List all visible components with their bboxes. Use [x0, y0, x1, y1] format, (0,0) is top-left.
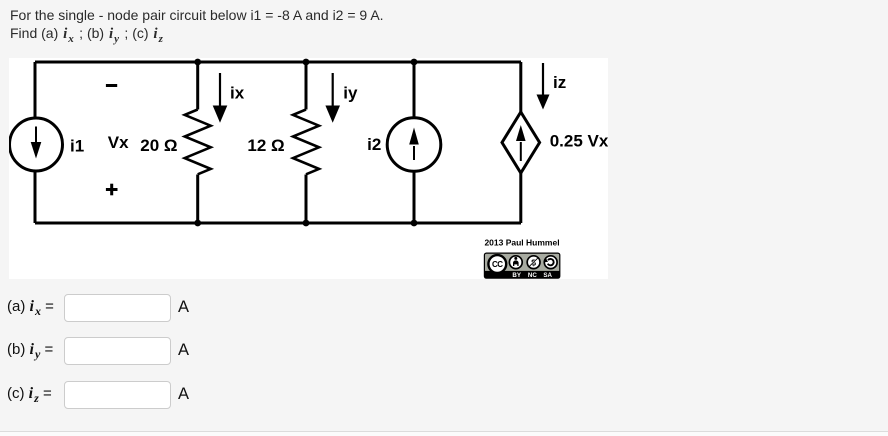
wire i2 branch lower	[413, 172, 416, 223]
svg-text:12 Ω: 12 Ω	[247, 136, 284, 155]
current source i1 circle	[10, 118, 63, 171]
circuit image panel	[9, 58, 608, 279]
svg-text:i2: i2	[367, 135, 381, 154]
node dot top R2	[303, 59, 310, 66]
wire left branch lower	[34, 171, 37, 223]
wire R1 branch upper	[196, 62, 199, 110]
node dot bottom R2	[303, 220, 310, 227]
svg-text:BY: BY	[512, 272, 521, 279]
svg-text:2013 Paul Hummel: 2013 Paul Hummel	[484, 238, 559, 248]
answer row (a)	[7, 298, 54, 319]
BY NC SA small texts	[512, 272, 552, 279]
current source i2 circle	[387, 118, 441, 172]
i1 arrow (down)	[31, 127, 42, 159]
svg-text:20 Ω: 20 Ω	[140, 136, 177, 155]
node dot top R1	[194, 59, 201, 66]
svg-text:NC: NC	[528, 272, 537, 279]
wire R1 branch lower	[196, 175, 199, 224]
svg-text:iy: iy	[343, 84, 358, 103]
NC icon circle	[527, 256, 540, 269]
svg-text:CC: CC	[492, 260, 503, 269]
BY icon circle	[509, 256, 522, 269]
wire R2 branch upper	[305, 62, 308, 110]
wire right branch upper	[519, 62, 522, 112]
svg-text:ix: ix	[230, 84, 245, 103]
i2 arrow (up)	[409, 128, 419, 161]
CC logo circle	[488, 255, 506, 273]
answer row (b)	[7, 341, 53, 362]
question line 2	[10, 25, 164, 45]
question line 1	[10, 7, 384, 23]
node dot bottom i2	[411, 220, 418, 227]
svg-text:Vx: Vx	[108, 133, 129, 152]
answer row (c)	[7, 385, 52, 406]
bottom divider	[0, 431, 888, 436]
resistor R2 12ohm zigzag	[293, 110, 319, 175]
svg-text:0.25 Vx: 0.25 Vx	[550, 132, 608, 151]
node dot bottom R1	[194, 220, 201, 227]
node dot top i2	[411, 59, 418, 66]
dependent source arrow (up)	[516, 125, 526, 161]
svg-text:SA: SA	[543, 272, 552, 279]
SA icon circle	[544, 256, 557, 269]
ix current arrow	[213, 73, 228, 123]
svg-text:i1: i1	[70, 137, 84, 156]
wire R2 branch lower	[305, 175, 308, 224]
CC license badge	[484, 253, 559, 279]
wire top rail	[35, 61, 521, 64]
wire i2 branch upper	[413, 62, 416, 118]
wire right branch lower	[519, 173, 522, 223]
wire bottom rail	[35, 222, 521, 225]
dependent source diamond 0.25Vx	[502, 112, 540, 173]
resistor R1 20ohm zigzag	[185, 110, 211, 175]
iz current arrow	[537, 63, 550, 110]
iy current arrow	[325, 73, 340, 123]
svg-text:iz: iz	[553, 73, 566, 92]
wire left branch upper	[34, 62, 37, 118]
